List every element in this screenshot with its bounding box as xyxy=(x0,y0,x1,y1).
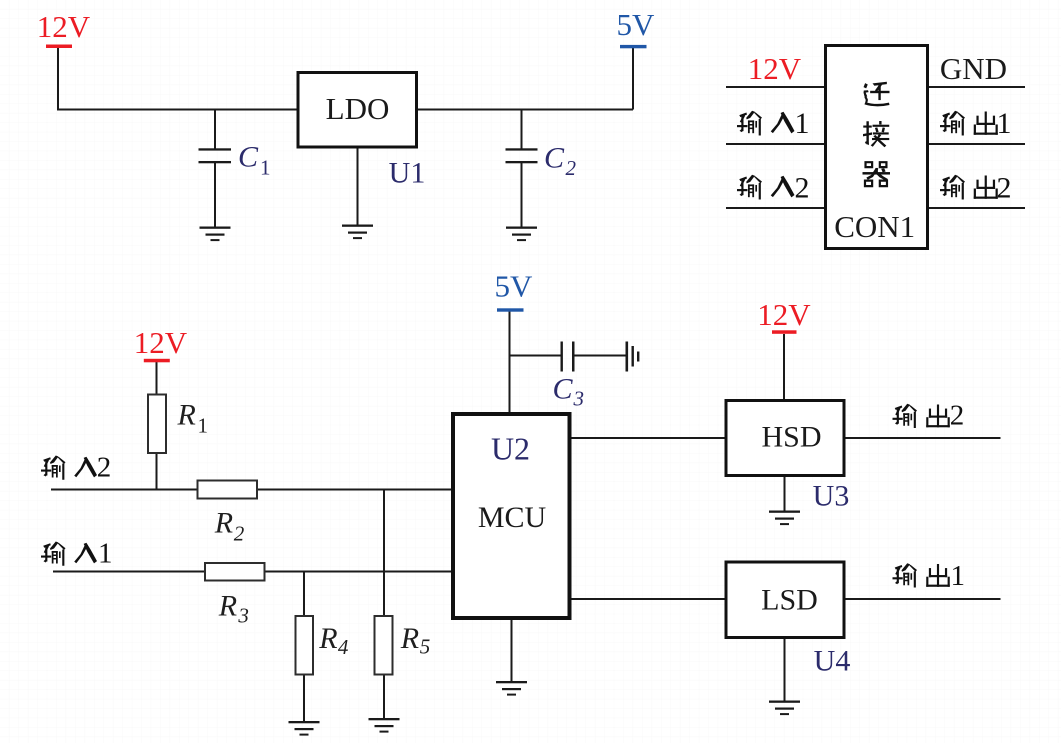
svg-text:GND: GND xyxy=(940,51,1007,86)
svg-text:U4: U4 xyxy=(814,645,851,678)
svg-text:U1: U1 xyxy=(389,157,426,190)
svg-text:5V: 5V xyxy=(495,269,534,304)
svg-text:12V: 12V xyxy=(134,325,188,360)
svg-text:1: 1 xyxy=(951,560,966,592)
svg-text:12V: 12V xyxy=(37,9,91,44)
svg-text:5V: 5V xyxy=(617,7,656,42)
svg-text:U3: U3 xyxy=(813,480,850,513)
svg-text:2: 2 xyxy=(234,522,245,546)
svg-text:1: 1 xyxy=(997,107,1012,140)
svg-text:CON1: CON1 xyxy=(834,209,915,244)
svg-text:4: 4 xyxy=(338,635,349,659)
svg-text:R: R xyxy=(400,622,419,655)
svg-text:2: 2 xyxy=(950,400,965,432)
svg-text:12V: 12V xyxy=(748,51,802,86)
svg-text:LSD: LSD xyxy=(761,584,818,617)
svg-text:C: C xyxy=(238,140,259,173)
svg-text:3: 3 xyxy=(573,387,585,411)
svg-text:1: 1 xyxy=(795,107,810,140)
svg-text:C: C xyxy=(553,372,574,405)
svg-text:HSD: HSD xyxy=(761,421,821,454)
svg-text:C: C xyxy=(544,142,565,175)
svg-text:MCU: MCU xyxy=(478,501,547,534)
svg-text:3: 3 xyxy=(237,604,249,628)
svg-text:2: 2 xyxy=(795,171,810,204)
svg-text:1: 1 xyxy=(198,413,209,437)
svg-text:R: R xyxy=(318,622,337,655)
svg-text:U2: U2 xyxy=(491,431,530,467)
svg-text:2: 2 xyxy=(97,452,112,484)
svg-text:R: R xyxy=(218,590,237,623)
svg-text:5: 5 xyxy=(420,634,431,658)
svg-text:1: 1 xyxy=(260,155,271,179)
svg-text:R: R xyxy=(177,398,196,431)
svg-text:2: 2 xyxy=(566,156,577,180)
svg-text:2: 2 xyxy=(997,171,1012,204)
svg-text:12V: 12V xyxy=(757,297,811,332)
svg-text:1: 1 xyxy=(98,538,113,570)
svg-text:LDO: LDO xyxy=(326,91,390,126)
svg-text:R: R xyxy=(214,507,233,540)
